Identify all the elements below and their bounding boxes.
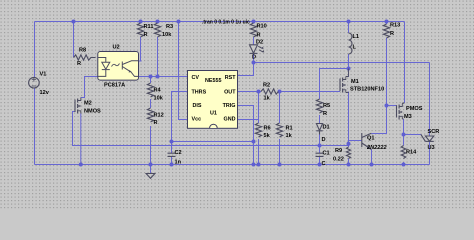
node rail TRIG [252, 163, 256, 167]
svg-text:R1: R1 [286, 126, 293, 132]
node C2 THRS [170, 140, 174, 144]
wire M3 drain to node [403, 119, 405, 135]
node OUT R6 [257, 90, 261, 94]
inductor L1 [349, 33, 353, 54]
svg-text:M2: M2 [84, 101, 92, 107]
svg-text:.tran 0 0.1m 0 1u uic: .tran 0 0.1m 0 1u uic [202, 20, 250, 26]
wire C2 top lead [171, 142, 173, 154]
svg-text:L: L [353, 44, 357, 50]
svg-text:TRIG: TRIG [223, 103, 236, 109]
op-amp U1 NE555 box [188, 71, 238, 129]
wire R10 to D2 [253, 37, 255, 45]
wire R10 top [253, 22, 255, 24]
wire R3 lead [157, 37, 159, 77]
resistor R11 [137, 23, 143, 37]
wire R1 top lead [279, 92, 281, 124]
wire ground stub [150, 165, 152, 174]
wire Q1 collector to R13 node [371, 106, 386, 134]
node CV R3 [156, 75, 160, 79]
wire supply right corner [404, 22, 406, 104]
resistor R6 [255, 123, 261, 137]
svg-text:5k: 5k [264, 133, 271, 139]
svg-text:RST: RST [225, 75, 236, 81]
wire R6 bottom lead [258, 139, 260, 165]
wire R5 to D1 [319, 115, 321, 123]
svg-text:R: R [323, 111, 327, 117]
svg-text:NE555: NE555 [205, 78, 221, 84]
svg-text:10k: 10k [162, 32, 172, 38]
wire R1 bottom lead [279, 139, 281, 165]
svg-text:2N2222: 2N2222 [366, 145, 387, 151]
node rail R3 [156, 20, 160, 24]
pmos M3 [397, 103, 405, 120]
svg-text:U3: U3 [428, 145, 435, 151]
resistor R14 [401, 146, 406, 159]
svg-text:R6: R6 [264, 126, 271, 132]
wire R8 drop [73, 22, 75, 58]
components group [29, 23, 434, 178]
wire TRIG drop [238, 106, 254, 165]
svg-text:STB120NF10: STB120NF10 [350, 87, 384, 93]
svg-text:1k: 1k [264, 96, 271, 102]
wires group [35, 22, 430, 174]
wire top rail [35, 21, 405, 23]
wire U2 cathode to M2 drain [81, 77, 98, 98]
wire R13 top [386, 22, 388, 25]
svg-text:R4: R4 [154, 88, 162, 94]
node rail L1 [347, 20, 351, 24]
wire bottom rail [35, 164, 430, 166]
svg-text:CV: CV [192, 75, 200, 81]
node R13 M3 gate [385, 104, 389, 108]
svg-text:M3: M3 [404, 114, 412, 120]
node rail R10 [252, 20, 256, 24]
node rail Vcc [177, 20, 181, 24]
wire THRS to C2 [172, 92, 188, 142]
svg-text:R2: R2 [263, 83, 270, 89]
wire C1 node to plates [319, 146, 321, 154]
svg-text:R5: R5 [323, 103, 330, 109]
wire U2 emitter to CV [139, 76, 188, 78]
svg-text:L1: L1 [353, 34, 360, 40]
wire SCR anode [429, 63, 431, 137]
wire RST jog to D2 node [238, 63, 254, 76]
wire C1 bottom [319, 156, 321, 164]
wire M2 gate long wire [73, 112, 349, 146]
wire C2 bottom lead [171, 156, 173, 164]
wire Q1 emitter to rail [371, 150, 373, 165]
wire SCR gate [404, 134, 421, 136]
node rail R6 [257, 163, 261, 167]
node rail M2 source [79, 163, 83, 167]
wire M1 source to R9 [348, 92, 350, 148]
svg-text:V1: V1 [40, 72, 47, 78]
svg-text:Q1: Q1 [367, 136, 374, 142]
node M3 drain SCR gate [402, 133, 406, 137]
wire y141 THRS-TRIG [172, 141, 254, 143]
wire R13 bottom [386, 38, 388, 106]
svg-text:C: C [322, 161, 326, 167]
node Q1 base R9 [347, 142, 351, 146]
wire R12 to rail [150, 126, 152, 165]
resistor R4 [147, 83, 153, 97]
optocoupler U2 PC817A box [98, 52, 139, 81]
svg-text:D2: D2 [256, 40, 263, 46]
wire R6 top lead [258, 92, 260, 124]
wire D2 to node [253, 53, 255, 62]
svg-text:U2: U2 [113, 45, 120, 51]
wire M3 gate [387, 105, 397, 107]
node D2 RST [252, 61, 256, 65]
node rail R13 [385, 20, 389, 24]
node rail R14 [402, 163, 406, 167]
svg-text:M1: M1 [351, 79, 359, 85]
wire R11 stub to U2 collector [139, 60, 142, 62]
svg-text:NMOS: NMOS [84, 109, 101, 115]
wire V1 top [34, 22, 36, 78]
node M1 drain [347, 67, 351, 71]
svg-text:PMOS: PMOS [406, 106, 423, 112]
voltage source V1 [29, 77, 40, 88]
svg-text:GND: GND [224, 117, 236, 123]
svg-text:R3: R3 [166, 24, 173, 30]
ground symbol [146, 174, 155, 179]
svg-text:1n: 1n [175, 160, 182, 166]
svg-text:12v: 12v [40, 90, 50, 96]
svg-text:R12: R12 [154, 113, 164, 119]
svg-text:R9: R9 [335, 148, 342, 154]
node TRIG y141 [252, 140, 256, 144]
svg-text:D: D [252, 55, 256, 61]
svg-text:R14: R14 [406, 150, 417, 156]
capacitor C1 [316, 153, 324, 156]
svg-text:1k: 1k [286, 133, 293, 139]
node rail C1 [318, 163, 322, 167]
wire L1 to drain node [348, 54, 350, 77]
wire R2 right to M1 gate [279, 91, 341, 93]
nmos M2 [75, 98, 81, 114]
svg-text:R8: R8 [79, 48, 86, 54]
svg-text:U1: U1 [210, 111, 217, 117]
wire R11 lead [140, 37, 142, 61]
node rail R9 [347, 163, 351, 167]
resistor R12 [147, 108, 153, 122]
node R2 R1 [278, 90, 282, 94]
node rail R8 [72, 20, 76, 24]
svg-text:R11: R11 [144, 24, 154, 30]
node rail Q1 emitter [370, 163, 374, 167]
wire Q1 base [349, 140, 362, 142]
svg-text:C2: C2 [175, 150, 182, 156]
wire GND pin [238, 119, 259, 121]
svg-text:D1: D1 [323, 125, 330, 131]
resistor R8 [74, 55, 96, 60]
svg-text:D: D [322, 137, 326, 143]
resistor R10 [250, 23, 256, 37]
wire node D2 to SCR anode column [254, 62, 430, 64]
wire SCR cathode [429, 141, 431, 164]
resistor R1 [276, 123, 282, 137]
resistor R13 [383, 24, 389, 38]
resistor R5 [316, 99, 322, 113]
wire drain node to R5 chain [320, 69, 349, 100]
svg-text:R: R [144, 32, 148, 38]
wire R9 bottom [348, 159, 350, 165]
node rail R11 [139, 20, 143, 24]
npn Q1 [362, 133, 372, 150]
SCR U3 [421, 134, 434, 141]
svg-text:R: R [257, 33, 261, 39]
svg-text:0.22: 0.22 [333, 157, 344, 163]
svg-text:PC817A: PC817A [104, 83, 125, 89]
svg-text:THRS: THRS [192, 90, 207, 96]
svg-text:OUT: OUT [224, 90, 236, 96]
wire R14 bottom [403, 162, 405, 165]
wire R14 top [403, 135, 405, 146]
capacitor C2 [168, 153, 176, 156]
svg-text:R: R [154, 120, 158, 126]
svg-text:C1: C1 [323, 151, 330, 157]
wire R4 chain top [150, 77, 152, 84]
node rail R12 [149, 163, 153, 167]
nmos M1 [340, 69, 349, 94]
diode D1 [316, 124, 322, 135]
svg-text:DIS: DIS [193, 103, 202, 109]
svg-text:10k: 10k [154, 96, 164, 102]
resistor R3 [154, 23, 160, 37]
resistor R9 [346, 147, 350, 159]
svg-text:Vcc: Vcc [192, 117, 202, 123]
LED D2 [250, 45, 265, 54]
node CV R4 [149, 75, 153, 79]
wire D1 to C1 node [319, 135, 321, 146]
IC pin labels [192, 75, 237, 123]
wire V1 bottom [34, 88, 36, 165]
wire Vcc riser [179, 22, 188, 120]
wire L1 top [348, 22, 350, 34]
svg-text:R10: R10 [257, 24, 267, 30]
svg-text:R: R [77, 61, 81, 67]
wire M2 source [80, 114, 82, 165]
wire OUT pin [238, 91, 261, 93]
node D1 C1 [318, 144, 322, 148]
wire R4 to R12 [150, 99, 152, 108]
node rail C2 [170, 163, 174, 167]
svg-text:R13: R13 [390, 23, 400, 29]
node rail R1 [278, 163, 282, 167]
svg-text:R: R [390, 31, 394, 37]
resistor R2 [261, 89, 278, 94]
svg-text:SCR: SCR [428, 129, 440, 135]
